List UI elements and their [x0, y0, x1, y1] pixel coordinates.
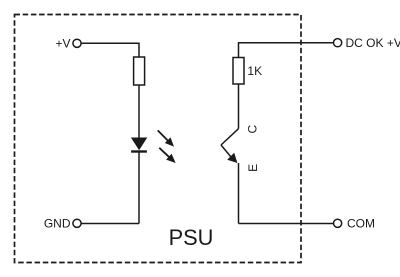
wire resistor R1 to LED anode: [138, 85, 140, 138]
resistor R1 (LED series resistor): [134, 57, 145, 85]
svg-text:C: C: [246, 125, 260, 134]
terminal DC OK +V: [334, 39, 342, 47]
svg-text:GND: GND: [44, 217, 71, 231]
svg-text:PSU: PSU: [169, 225, 214, 250]
light arrow 2: [159, 148, 175, 163]
wire DC OK terminal to resistor R2: [239, 43, 334, 58]
wire +V terminal to resistor R1: [81, 43, 139, 57]
svg-text:+V: +V: [55, 37, 70, 51]
svg-text:COM: COM: [347, 217, 375, 231]
light arrow 1: [158, 130, 174, 146]
wire LED cathode to GND node: [138, 152, 140, 224]
svg-text:E: E: [246, 164, 260, 172]
terminal +V: [73, 39, 81, 47]
svg-text:DC OK +V: DC OK +V: [346, 36, 400, 50]
terminal GND: [73, 219, 81, 227]
terminal COM: [334, 219, 342, 227]
svg-text:1K: 1K: [247, 64, 262, 78]
resistor R2 1K (collector pull-up): [233, 58, 244, 85]
wire GND terminal to LED branch: [81, 223, 139, 225]
wire phototransistor emitter to COM node: [238, 163, 240, 224]
phototransistor Q1: [221, 129, 239, 163]
wire resistor R2 to phototransistor collector: [238, 84, 240, 129]
PSU boundary dashed box: [15, 15, 302, 263]
wire emitter branch to COM terminal: [239, 223, 334, 225]
LED D1 (optocoupler emitter diode): [131, 138, 147, 152]
